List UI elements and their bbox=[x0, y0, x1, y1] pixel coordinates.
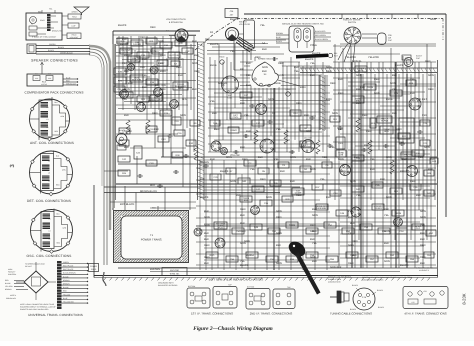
svg-text:BLK: BLK bbox=[204, 238, 209, 241]
svg-text:RED: RED bbox=[296, 102, 302, 105]
svg-text:POLE: POLE bbox=[310, 44, 317, 47]
svg-text:CALIBR: CALIBR bbox=[133, 43, 141, 46]
svg-text:GRN: GRN bbox=[326, 66, 332, 69]
svg-text:BRN: BRN bbox=[126, 130, 132, 133]
svg-text:TERM: TERM bbox=[289, 224, 295, 227]
chassis right boundary bbox=[445, 14, 447, 217]
svg-text:BRN: BRN bbox=[396, 128, 402, 131]
svg-text:RED: RED bbox=[278, 62, 284, 65]
power transformer T1 outer case bbox=[114, 211, 189, 263]
svg-text:FIDELITY CONTR.: FIDELITY CONTR. bbox=[343, 19, 361, 22]
wire red to power transformer bbox=[157, 206, 159, 211]
svg-text:RED: RED bbox=[340, 170, 346, 173]
remote switch wires left bbox=[276, 34, 289, 36]
tube socket rf 6K7 bbox=[340, 165, 351, 176]
svg-text:L2: L2 bbox=[47, 126, 49, 129]
svg-text:TERM: TERM bbox=[395, 212, 401, 215]
compensator trimmer C15 bbox=[46, 76, 53, 81]
gray shielded lead left bbox=[113, 44, 115, 208]
svg-text:BLACK: BLACK bbox=[48, 49, 55, 52]
tube socket output 6F6 second bbox=[150, 66, 158, 74]
svg-text:PLG: PLG bbox=[218, 226, 223, 229]
remote control cable dash-dot border bbox=[237, 18, 443, 20]
wires dropping to power transformer bbox=[124, 186, 126, 211]
power cord box bbox=[89, 264, 99, 272]
wire brown-black bbox=[104, 192, 280, 194]
svg-text:C13F: C13F bbox=[71, 25, 75, 28]
svg-text:BLK: BLK bbox=[194, 54, 199, 57]
svg-text:C30: C30 bbox=[405, 57, 408, 60]
tube socket V2 bbox=[154, 88, 163, 97]
svg-text:RED: RED bbox=[425, 60, 431, 63]
shielded lead capacitor circle bbox=[116, 134, 127, 145]
svg-text:GRN: GRN bbox=[350, 180, 356, 183]
svg-text:BROWN-BLACK: BROWN-BLACK bbox=[140, 190, 158, 193]
svg-text:YEL: YEL bbox=[49, 8, 52, 11]
svg-text:GRN: GRN bbox=[348, 244, 354, 247]
svg-text:YEL: YEL bbox=[392, 88, 397, 91]
svg-text:RED: RED bbox=[240, 208, 246, 211]
svg-text:BLK: BLK bbox=[392, 112, 397, 115]
long wire brown bbox=[118, 163, 430, 165]
svg-text:BLK: BLK bbox=[200, 178, 205, 181]
svg-text:GRN: GRN bbox=[384, 230, 390, 233]
universal trans right wires bbox=[62, 263, 88, 265]
svg-text:BRT BLACK: BRT BLACK bbox=[120, 203, 135, 206]
svg-text:BLK: BLK bbox=[304, 114, 309, 117]
tube socket rectifier 5Z4 bbox=[215, 238, 225, 248]
svg-text:BLACK: BLACK bbox=[352, 284, 359, 287]
svg-text:BLK: BLK bbox=[236, 194, 241, 197]
svg-text:BLACK-GREEN: BLACK-GREEN bbox=[315, 38, 329, 41]
svg-text:CALIBR: CALIBR bbox=[130, 59, 138, 62]
vertical wire group right bbox=[334, 44, 336, 200]
svg-text:BLK: BLK bbox=[192, 40, 197, 43]
svg-text:BLK: BLK bbox=[204, 262, 209, 265]
svg-text:RED: RED bbox=[204, 244, 210, 247]
svg-text:BOTTOM: BOTTOM bbox=[188, 285, 196, 288]
svg-text:BOTTOM VIEW REAR OF CHASSIS: BOTTOM VIEW REAR OF CHASSIS bbox=[209, 278, 264, 282]
svg-text:BLK: BLK bbox=[348, 216, 353, 219]
horizontal wire group center lower band bbox=[196, 159, 330, 161]
svg-text:CORD: CORD bbox=[91, 268, 97, 271]
svg-text:BRN: BRN bbox=[124, 54, 130, 57]
heavy wire bundles bbox=[351, 62, 353, 268]
svg-text:BROWN: BROWN bbox=[63, 279, 70, 282]
svg-text:GREEN-BLACK: GREEN-BLACK bbox=[60, 51, 74, 54]
svg-text:L3: L3 bbox=[47, 118, 49, 121]
svg-text:BLK: BLK bbox=[352, 254, 357, 257]
svg-text:GRN: GRN bbox=[266, 196, 272, 199]
svg-text:BLK: BLK bbox=[402, 158, 407, 161]
svg-text:BLACK: BLACK bbox=[276, 40, 283, 43]
svg-text:BLK: BLK bbox=[204, 232, 209, 235]
svg-text:GRN: GRN bbox=[268, 98, 274, 101]
svg-text:GRN-BLK: GRN-BLK bbox=[330, 266, 342, 269]
wire red long bbox=[104, 186, 300, 188]
svg-text:BLACK: BLACK bbox=[395, 64, 404, 67]
svg-text:BLK: BLK bbox=[294, 66, 299, 69]
svg-text:GRN: GRN bbox=[312, 214, 318, 217]
svg-text:BRN: BRN bbox=[400, 170, 406, 173]
tuning cable plug barrel bbox=[337, 291, 341, 303]
svg-text:GRN: GRN bbox=[180, 114, 186, 117]
svg-text:BLK: BLK bbox=[142, 58, 147, 61]
svg-text:L4: L4 bbox=[49, 218, 51, 221]
svg-text:RED: RED bbox=[338, 92, 344, 95]
svg-text:BLACK: BLACK bbox=[240, 264, 249, 267]
svg-text:RED: RED bbox=[214, 128, 220, 131]
chassis top boundary right bbox=[244, 13, 446, 15]
vertical wire group bottom center bbox=[199, 160, 201, 270]
svg-text:TERM: TERM bbox=[367, 86, 373, 89]
horizontal wire group left mid bbox=[116, 113, 170, 115]
coil form ANT. COIL CONNECTIONS bbox=[39, 100, 52, 137]
coil winding sections DET. COIL CONNECTIONS bbox=[42, 156, 50, 162]
svg-text:IF BLACK OF STEEL CONDUIT: IF BLACK OF STEEL CONDUIT bbox=[32, 36, 56, 39]
svg-text:POWER: POWER bbox=[90, 265, 97, 268]
svg-text:GREEN: GREEN bbox=[218, 82, 227, 85]
coil form DET. COIL CONNECTIONS bbox=[41, 154, 54, 191]
svg-text:GRN: GRN bbox=[356, 74, 362, 77]
svg-text:GRN: GRN bbox=[178, 58, 184, 61]
power transformer T1 inner body bbox=[121, 216, 182, 259]
svg-text:BLK: BLK bbox=[240, 146, 245, 149]
svg-text:BLK: BLK bbox=[326, 196, 331, 199]
svg-text:LOW TRIMS CONTR.: LOW TRIMS CONTR. bbox=[166, 18, 187, 21]
solid black tuning plug bbox=[286, 239, 308, 260]
tube socket output 6F6 bbox=[128, 64, 135, 71]
svg-text:TUNING CABLE CONNECTIONS: TUNING CABLE CONNECTIONS bbox=[330, 312, 372, 316]
svg-text:RED: RED bbox=[160, 88, 166, 91]
svg-text:LOW VOLT: LOW VOLT bbox=[70, 36, 79, 39]
svg-text:RANGE SELECTOR: RANGE SELECTOR bbox=[258, 58, 279, 61]
svg-text:BLK: BLK bbox=[420, 262, 425, 265]
svg-text:BR: BR bbox=[240, 68, 244, 71]
svg-text:BLK: BLK bbox=[356, 102, 361, 105]
svg-text:BLK: BLK bbox=[410, 92, 415, 95]
tube socket V5 bbox=[256, 104, 267, 115]
svg-text:RED: RED bbox=[330, 82, 336, 85]
svg-text:BLK: BLK bbox=[356, 88, 361, 91]
first if trans bottom view box bbox=[187, 288, 210, 308]
svg-text:BLK: BLK bbox=[290, 180, 295, 183]
svg-text:#12743: #12743 bbox=[41, 83, 47, 86]
svg-text:OUTPUT: OUTPUT bbox=[148, 100, 159, 103]
svg-text:BUTTON: BUTTON bbox=[170, 54, 179, 57]
speaker plug circle bbox=[30, 17, 37, 24]
svg-text:BLACK: BLACK bbox=[63, 286, 69, 289]
svg-text:YEL: YEL bbox=[330, 146, 335, 149]
svg-text:YELLOW: YELLOW bbox=[345, 56, 356, 59]
svg-text:RED: RED bbox=[204, 256, 210, 259]
svg-text:GRN: GRN bbox=[290, 156, 296, 159]
svg-text:L3: L3 bbox=[48, 172, 50, 175]
svg-text:RES: RES bbox=[371, 122, 376, 125]
svg-text:GRN: GRN bbox=[276, 210, 282, 213]
svg-text:BLK: BLK bbox=[310, 74, 315, 77]
svg-text:BUTTON: BUTTON bbox=[155, 84, 166, 87]
chassis bottom hatched edge bbox=[94, 275, 438, 277]
svg-text:TERM. BD.: TERM. BD. bbox=[169, 272, 180, 275]
svg-text:YELLOW: YELLOW bbox=[63, 293, 70, 296]
svg-text:BLK: BLK bbox=[240, 102, 245, 105]
svg-text:RED: RED bbox=[296, 194, 302, 197]
svg-text:SW: SW bbox=[205, 38, 210, 41]
horizontal wire group left lower sparse bbox=[104, 170, 128, 172]
wire from range selector bbox=[234, 69, 253, 71]
remote control sockets bbox=[294, 28, 301, 42]
coil wires ANT. COIL CONNECTIONS bbox=[52, 105, 66, 135]
speaker plug detail box bbox=[26, 13, 62, 40]
svg-text:BLK: BLK bbox=[240, 222, 245, 225]
svg-text:GRN: GRN bbox=[262, 66, 268, 69]
svg-text:BLACK: BLACK bbox=[378, 306, 385, 309]
capacitor C38 box bbox=[225, 9, 238, 18]
svg-text:BRN: BRN bbox=[326, 98, 332, 101]
svg-text:BLACK: BLACK bbox=[200, 196, 209, 199]
svg-text:BLACK: BLACK bbox=[305, 58, 314, 61]
electrolytic capacitor C30 bbox=[404, 58, 413, 67]
svg-text:YEL: YEL bbox=[420, 224, 425, 227]
svg-text:ANT. COIL CONNECTIONS: ANT. COIL CONNECTIONS bbox=[30, 141, 75, 145]
svg-text:SOCKETS AND COILS WHEN USED: SOCKETS AND COILS WHEN USED bbox=[20, 308, 49, 311]
svg-text:5A: 5A bbox=[262, 42, 265, 45]
svg-text:RES: RES bbox=[338, 142, 343, 145]
svg-text:BLK: BLK bbox=[158, 62, 163, 65]
svg-text:YEL: YEL bbox=[240, 260, 245, 263]
svg-text:BLK: BLK bbox=[210, 158, 215, 161]
svg-text:BLK: BLK bbox=[192, 88, 197, 91]
svg-text:GREEN: GREEN bbox=[63, 261, 70, 264]
vertical wire group left descenders bbox=[162, 110, 164, 157]
svg-text:YEL: YEL bbox=[370, 158, 375, 161]
coil terminals OSC. COIL CONNECTIONS bbox=[66, 216, 70, 220]
svg-text:GREEN: GREEN bbox=[49, 43, 56, 46]
shielded cable vertical band bbox=[197, 42, 199, 200]
svg-text:BROWN: BROWN bbox=[63, 283, 70, 286]
svg-text:2ND I.F. TRANS. CONNECTIONS: 2ND I.F. TRANS. CONNECTIONS bbox=[250, 312, 293, 316]
svg-text:BLK: BLK bbox=[154, 128, 159, 131]
svg-text:GRN: GRN bbox=[428, 74, 434, 77]
svg-text:BLACK: BLACK bbox=[210, 43, 219, 46]
svg-text:GRN: GRN bbox=[306, 130, 312, 133]
svg-text:RED-GREEN: RED-GREEN bbox=[315, 34, 326, 37]
volume control wire bundle bbox=[238, 38, 254, 48]
svg-text:GRN: GRN bbox=[430, 18, 436, 21]
svg-text:BLK: BLK bbox=[392, 74, 397, 77]
svg-text:BLK: BLK bbox=[428, 168, 433, 171]
svg-text:BLUE: BLUE bbox=[274, 82, 281, 85]
svg-text:BLK: BLK bbox=[246, 130, 251, 133]
svg-text:RED: RED bbox=[194, 70, 200, 73]
svg-text:GRN: GRN bbox=[332, 112, 338, 115]
svg-text:RED: RED bbox=[310, 224, 316, 227]
resistor blocks in speaker box bbox=[29, 26, 37, 30]
svg-text:CONNECTED TO CHASSIS: CONNECTED TO CHASSIS bbox=[362, 279, 384, 282]
svg-text:BUTTON: BUTTON bbox=[132, 78, 141, 81]
svg-text:RECT PLATE: RECT PLATE bbox=[63, 265, 74, 268]
compensator pack box bbox=[27, 74, 63, 86]
svg-text:GRN-BL: GRN-BL bbox=[352, 60, 362, 63]
svg-text:BLK: BLK bbox=[122, 38, 127, 41]
svg-text:BLK: BLK bbox=[420, 232, 425, 235]
antenna symbol bbox=[74, 7, 89, 13]
svg-text:BLUE: BLUE bbox=[210, 64, 217, 67]
svg-text:BLK: BLK bbox=[430, 158, 435, 161]
svg-text:8-23K: 8-23K bbox=[462, 293, 467, 304]
svg-text:OSC DET: OSC DET bbox=[304, 136, 313, 139]
svg-text:BLACK: BLACK bbox=[220, 170, 229, 173]
dial pointer black bar bbox=[296, 54, 328, 59]
universal trans coil bar bbox=[57, 261, 62, 309]
svg-text:SW: SW bbox=[166, 30, 169, 33]
vertical wire group middle bbox=[209, 57, 211, 152]
svg-text:GRN-BLACK: GRN-BLACK bbox=[66, 82, 77, 85]
svg-text:YEL: YEL bbox=[142, 74, 147, 77]
svg-text:HOLE: HOLE bbox=[219, 56, 225, 59]
svg-text:BLK: BLK bbox=[246, 62, 251, 65]
svg-text:YEL: YEL bbox=[260, 24, 265, 27]
svg-text:L2: L2 bbox=[49, 238, 51, 241]
svg-text:GRN-BLACK: GRN-BLACK bbox=[6, 297, 17, 300]
svg-text:L22: L22 bbox=[412, 301, 415, 304]
svg-text:RED: RED bbox=[420, 256, 426, 259]
svg-text:C38: C38 bbox=[230, 10, 233, 13]
svg-text:C33: C33 bbox=[423, 290, 426, 293]
svg-text:GRN: GRN bbox=[338, 158, 344, 161]
svg-text:BRD: BRD bbox=[244, 199, 249, 202]
svg-text:R26: R26 bbox=[140, 66, 145, 69]
svg-text:GRN: GRN bbox=[192, 62, 198, 65]
svg-text:FIELD: FIELD bbox=[72, 16, 78, 19]
resistor zigzag group bbox=[146, 120, 150, 134]
svg-text:BLK: BLK bbox=[312, 208, 317, 211]
tube socket phase inverter bbox=[137, 103, 146, 112]
svg-text:SWITCH: SWITCH bbox=[348, 21, 357, 24]
tube socket ant coil bbox=[222, 76, 239, 93]
svg-text:GRN: GRN bbox=[204, 216, 210, 219]
svg-text:RECT PLATE: RECT PLATE bbox=[63, 268, 74, 271]
speaker cable wires bbox=[36, 45, 89, 47]
svg-text:BLK: BLK bbox=[380, 178, 385, 181]
svg-text:GRN: GRN bbox=[204, 224, 210, 227]
svg-text:L4: L4 bbox=[48, 160, 50, 163]
horizontal wire group upper-left block bbox=[116, 38, 178, 40]
fourth if trans box bbox=[403, 287, 448, 309]
universal trans bridge diamond bbox=[24, 271, 48, 293]
svg-text:RED: RED bbox=[420, 244, 426, 247]
tube socket 2nd det bbox=[409, 98, 421, 110]
svg-text:BLK: BLK bbox=[310, 238, 315, 241]
svg-text:BLK: BLK bbox=[338, 128, 343, 131]
svg-text:GRN: GRN bbox=[386, 156, 392, 159]
coil connection circle DET. COIL CONNECTIONS bbox=[30, 151, 73, 194]
svg-text:C7: C7 bbox=[272, 112, 276, 115]
svg-text:GANG: GANG bbox=[230, 129, 237, 132]
coil wires DET. COIL CONNECTIONS bbox=[54, 159, 68, 189]
svg-text:BLK: BLK bbox=[416, 194, 421, 197]
svg-text:6F6: 6F6 bbox=[182, 98, 187, 101]
svg-text:PLG: PLG bbox=[416, 227, 421, 230]
svg-text:BLK: BLK bbox=[240, 214, 245, 217]
svg-text:RED: RED bbox=[240, 230, 246, 233]
svg-text:GRN: GRN bbox=[276, 232, 282, 235]
svg-text:GRN: GRN bbox=[124, 88, 130, 91]
hole marker right bbox=[286, 92, 290, 96]
svg-text:2ND DET: 2ND DET bbox=[416, 98, 428, 101]
svg-text:CONNECTIONS: CONNECTIONS bbox=[328, 281, 341, 284]
svg-text:BLK: BLK bbox=[364, 144, 369, 147]
svg-text:REG: REG bbox=[210, 254, 215, 257]
svg-text:BLK: BLK bbox=[212, 112, 217, 115]
wires to field boxes bbox=[62, 15, 68, 17]
svg-text:UNIVERSAL TRANS. CONNECTIONS: UNIVERSAL TRANS. CONNECTIONS bbox=[28, 313, 83, 317]
svg-text:BLK: BLK bbox=[124, 146, 129, 149]
svg-text:RED: RED bbox=[366, 130, 372, 133]
hole marker left bbox=[220, 60, 224, 64]
svg-text:VOL CONTR: VOL CONTR bbox=[239, 23, 251, 26]
tube socket V3 bbox=[170, 100, 179, 109]
svg-text:BLACK: BLACK bbox=[120, 43, 129, 46]
svg-text:INSULATED SLEEVING: INSULATED SLEEVING bbox=[158, 284, 178, 287]
svg-text:BLK: BLK bbox=[246, 84, 251, 87]
svg-text:YEL: YEL bbox=[348, 210, 353, 213]
svg-text:BLK: BLK bbox=[142, 86, 147, 89]
svg-text:SPKR: SPKR bbox=[40, 19, 45, 22]
svg-text:BLUE: BLUE bbox=[386, 98, 393, 101]
svg-text:RED: RED bbox=[152, 112, 158, 115]
svg-text:BROWN: BROWN bbox=[276, 32, 284, 35]
chassis left boundary upper bbox=[112, 31, 114, 210]
svg-text:YEL-GRN: YEL-GRN bbox=[5, 285, 13, 288]
shielded band horizontal top right bbox=[300, 67, 437, 69]
svg-text:GRN: GRN bbox=[374, 92, 380, 95]
universal trans left wires bbox=[14, 280, 24, 282]
svg-text:GRN: GRN bbox=[424, 146, 430, 149]
svg-text:4TH I.F. TRANS. CONNECTIONS: 4TH I.F. TRANS. CONNECTIONS bbox=[404, 312, 446, 316]
coil winding sections ANT. COIL CONNECTIONS bbox=[41, 102, 49, 108]
svg-text:SOLDERED DIRECT TO TERMINAL LU: SOLDERED DIRECT TO TERMINAL LUGS OF bbox=[20, 306, 56, 309]
svg-text:BROWN: BROWN bbox=[5, 288, 12, 291]
tube socket magic eye bbox=[251, 206, 260, 215]
compensator wires right bbox=[63, 78, 77, 80]
compensator trimmer C14 bbox=[33, 76, 40, 81]
svg-text:BLK: BLK bbox=[306, 158, 311, 161]
svg-text:BLK: BLK bbox=[262, 70, 267, 73]
svg-text:GRN: GRN bbox=[226, 156, 232, 159]
field low volt box bbox=[68, 14, 81, 19]
svg-text:HOLE: HOLE bbox=[285, 88, 291, 91]
svg-text:BLK: BLK bbox=[354, 156, 359, 159]
power switch S1 bbox=[175, 29, 188, 42]
second if trans bottom view box bbox=[246, 289, 270, 310]
svg-text:R32: R32 bbox=[334, 52, 337, 55]
coil terminals ANT. COIL CONNECTIONS bbox=[63, 105, 67, 109]
svg-text:CONTROL: CONTROL bbox=[8, 273, 16, 276]
svg-text:RED: RED bbox=[362, 114, 368, 117]
svg-text:GRN: GRN bbox=[310, 256, 316, 259]
coil terminals DET. COIL CONNECTIONS bbox=[66, 157, 70, 161]
svg-text:RED: RED bbox=[428, 88, 434, 91]
wires in speaker detail box bbox=[37, 27, 47, 29]
coil connection circle OSC. COIL CONNECTIONS bbox=[31, 210, 73, 252]
compensator antenna lead bbox=[41, 63, 43, 74]
tube socket osc det 6A8 bbox=[302, 140, 315, 153]
svg-text:GRN: GRN bbox=[384, 260, 390, 263]
svg-text:NOTE 4: NOTE 4 bbox=[10, 294, 16, 297]
capacitor symbol group bbox=[167, 135, 169, 137]
